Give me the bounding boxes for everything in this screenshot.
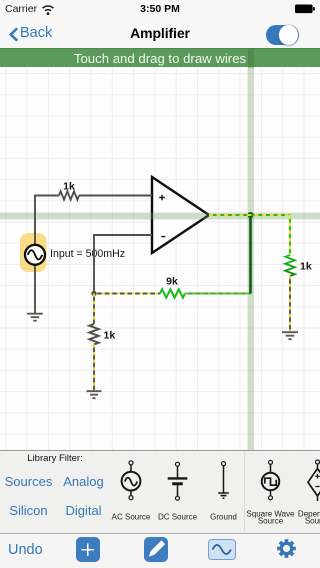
scope button <box>208 539 236 560</box>
wire output column vertical dark green <box>249 215 252 294</box>
wire op-amp output to load column (green, current dashes) <box>209 214 290 216</box>
wire load top vertical (green, current dashes) <box>289 215 291 255</box>
selection highlight of AC source <box>20 233 47 272</box>
library panel <box>0 450 320 533</box>
toggle on <box>266 25 299 46</box>
ground G1 <box>27 314 43 321</box>
bottom toolbar <box>0 533 320 568</box>
add button <box>76 537 100 563</box>
wire input top: source to R1 to op-amp + <box>35 196 152 246</box>
settings gear <box>276 538 297 559</box>
op-amp U1 <box>152 177 209 253</box>
wire op-amp minus to feedback node <box>94 235 152 294</box>
svg-text:Ground: Ground <box>210 513 237 522</box>
wire R2 to output column (green, current dashes) <box>185 293 251 295</box>
library ground icon <box>218 462 229 499</box>
wire R4 to ground (current dashes) <box>289 276 291 332</box>
library dependent source icon <box>308 460 320 501</box>
svg-text:AC Source: AC Source <box>112 513 151 522</box>
resistor R2 9k horizontal green <box>160 289 185 297</box>
svg-text:Source: Source <box>258 517 284 526</box>
resistor R4 1k vertical green <box>285 255 294 276</box>
resistor R1 1k horizontal <box>59 191 79 199</box>
svg-text:1k: 1k <box>300 260 312 272</box>
AC source V1 <box>25 245 45 265</box>
svg-text:1k: 1k <box>104 329 116 341</box>
op-amp - input label <box>161 236 165 238</box>
wire feedback node down to R3 (current dashes) <box>93 294 95 325</box>
svg-text:DC Source: DC Source <box>158 513 198 522</box>
wire R3 to ground (current dashes) <box>93 344 95 391</box>
svg-text:9k: 9k <box>166 276 178 288</box>
wire feedback node to R2 (with current dashes) <box>94 293 160 295</box>
ground G2 <box>87 391 102 398</box>
svg-text:Source: Source <box>305 517 320 526</box>
library square wave source icon <box>262 460 280 500</box>
op-amp + input label <box>159 195 165 201</box>
svg-text:Input = 500mHz: Input = 500mHz <box>50 248 125 260</box>
status bar <box>0 0 320 20</box>
edit button <box>144 537 168 563</box>
wifi icon <box>43 6 54 15</box>
node highlight band horizontal (output row) <box>0 213 320 220</box>
resistor R3 1k vertical <box>89 324 98 344</box>
library DC source icon <box>168 462 188 500</box>
ground G3 <box>282 332 298 339</box>
green banner <box>0 48 320 67</box>
wire source bottom to ground <box>34 265 36 314</box>
library divider <box>244 452 246 532</box>
node highlight band vertical (output column) <box>248 67 254 450</box>
junction node at op-amp output <box>248 212 254 218</box>
library AC source icon <box>122 461 141 500</box>
navigation bar <box>0 20 320 48</box>
junction node at feedback <box>91 291 96 296</box>
